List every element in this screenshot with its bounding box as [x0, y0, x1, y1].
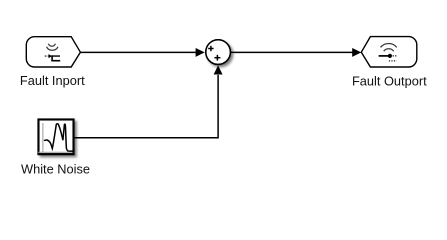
svg-text:Fault Outport: Fault Outport	[352, 73, 427, 88]
svg-text:White Noise: White Noise	[21, 161, 90, 176]
svg-text:Fault Inport: Fault Inport	[20, 73, 85, 88]
